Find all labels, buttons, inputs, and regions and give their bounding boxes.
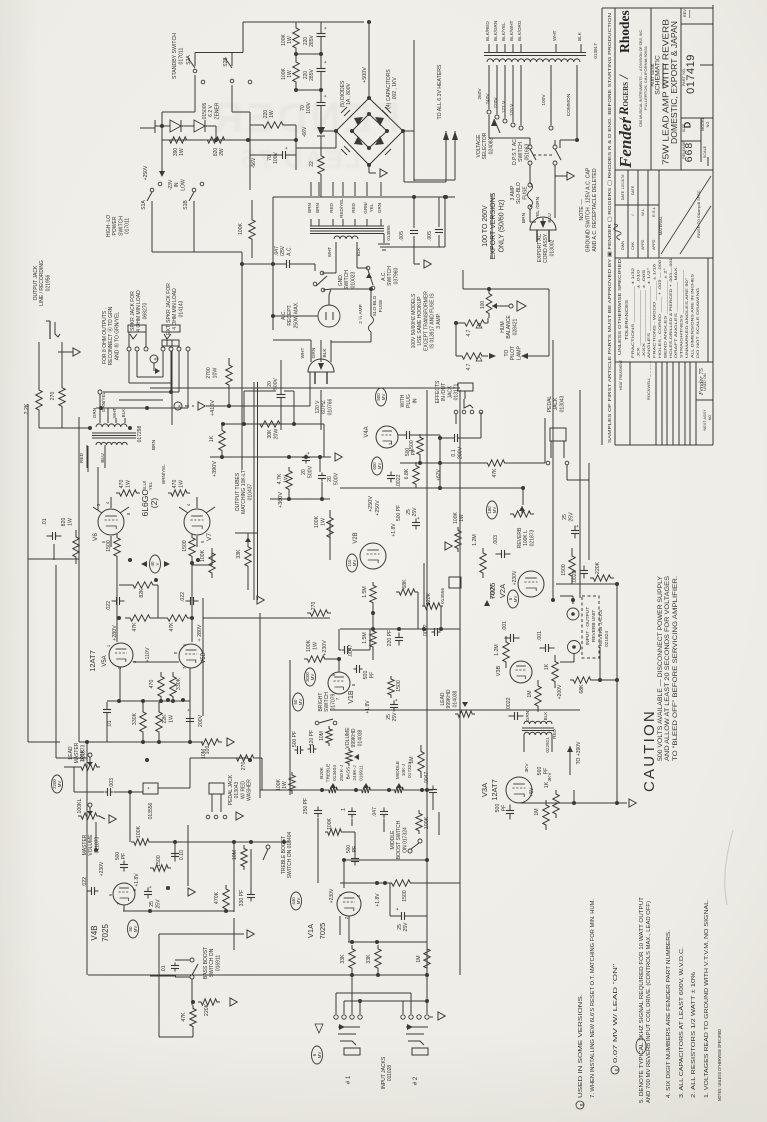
svg-text:.047: .047 [274, 246, 280, 256]
svg-text:RED: RED [351, 202, 356, 212]
svg-text:1K: 1K [209, 435, 215, 442]
svg-text:220K: 220K [595, 561, 601, 574]
svg-text:8: 8 [580, 1103, 586, 1106]
svg-text:-56V: -56V [251, 157, 257, 168]
svg-text:SWITCH: SWITCH [118, 216, 124, 236]
svg-text:—: — [685, 10, 694, 18]
svg-text:CAUTION: CAUTION [641, 709, 658, 792]
svg-text:FRACTIONS - WOOD ______ ± 1/16: FRACTIONS - WOOD ______ ± 1/16 [653, 264, 657, 358]
svg-text:BLK/RED: BLK/RED [485, 21, 490, 41]
svg-text:.003: .003 [493, 535, 499, 545]
svg-text:1W: 1W [179, 148, 185, 156]
svg-text:MV: MV [57, 781, 62, 788]
svg-text:DATE: DATE [631, 185, 635, 195]
svg-text:RED: RED [329, 202, 334, 212]
svg-text:+: + [148, 885, 154, 888]
svg-text:EXT. SPKR JACK FOR: EXT. SPKR JACK FOR [166, 283, 172, 335]
svg-text:021956: 021956 [45, 274, 51, 291]
svg-text:S1A: S1A [141, 200, 147, 210]
svg-text:+200V: +200V [557, 684, 563, 699]
svg-text:017419: 017419 [685, 54, 697, 94]
svg-text:270: 270 [50, 392, 56, 401]
svg-text:33K: 33K [366, 954, 372, 964]
svg-text:MATCHING 10K-LT: MATCHING 10K-LT [241, 470, 247, 514]
svg-text:MIDDLE: MIDDLE [390, 830, 396, 850]
svg-text:PILOT: PILOT [510, 346, 516, 360]
svg-text:3KV: 3KV [547, 772, 553, 782]
svg-text:LINE / RECORDING: LINE / RECORDING [39, 260, 45, 306]
svg-text:68K: 68K [579, 684, 585, 694]
svg-text:SWITCH ON: SWITCH ON [209, 948, 215, 977]
svg-text:NO.: NO. [706, 121, 710, 128]
svg-text:WHT: WHT [552, 30, 557, 41]
svg-text:120 V: 120 V [315, 400, 321, 414]
svg-text:668: 668 [683, 142, 695, 163]
svg-text:BRN/YEL: BRN/YEL [161, 464, 166, 484]
svg-text:015005: 015005 [202, 102, 208, 119]
svg-text:+: + [306, 451, 312, 454]
svg-text:BLK: BLK [121, 408, 126, 418]
svg-text:013917: 013917 [593, 43, 598, 59]
svg-text:100K: 100K [281, 68, 287, 80]
svg-text:OUTPUT TUBES: OUTPUT TUBES [235, 472, 241, 511]
svg-text:285V: 285V [309, 35, 315, 47]
svg-text:+: + [323, 26, 329, 29]
svg-text:BLU/: BLU/ [142, 480, 147, 491]
svg-text:6: 6 [615, 1068, 621, 1071]
svg-text:999KHD: 999KHD [351, 728, 357, 747]
svg-text:3. ALL CAPACITORS AT LEAST: 3. ALL CAPACITORS AT LEAST 600V, W.V.D.C… [679, 947, 685, 1098]
svg-text:RECONNECT Ⓐ TO GRN: RECONNECT Ⓐ TO GRN [107, 306, 114, 365]
svg-text:BRN: BRN [315, 203, 320, 213]
svg-text:D: D [683, 121, 693, 128]
svg-text:RED: RED [79, 452, 85, 463]
svg-text:PF: PF [369, 672, 375, 679]
svg-text:017298: 017298 [137, 425, 143, 442]
svg-text:22: 22 [309, 161, 315, 167]
svg-text:NEXT ASSY: NEXT ASSY [703, 409, 707, 431]
svg-text:.0047: .0047 [348, 644, 354, 657]
svg-text:CHK: CHK [631, 242, 635, 250]
svg-text:820: 820 [213, 148, 219, 157]
svg-text:1.2M: 1.2M [472, 534, 478, 546]
svg-text:BRN: BRN [151, 439, 157, 450]
svg-text:013556: 013556 [148, 802, 154, 819]
svg-text:IN: IN [174, 182, 180, 187]
svg-text:051663: 051663 [524, 143, 530, 160]
svg-text:+: + [284, 146, 290, 149]
svg-text:12AT7: 12AT7 [88, 650, 97, 672]
svg-text:AND Ⓑ TO GRN/YEL: AND Ⓑ TO GRN/YEL [113, 312, 120, 361]
svg-text:S2A: S2A [186, 55, 192, 65]
svg-text:VOLUME: VOLUME [88, 834, 94, 856]
svg-text:100K: 100K [238, 223, 244, 235]
svg-text:BLK/WHT: BLK/WHT [509, 20, 514, 41]
svg-text:25V: 25V [412, 507, 418, 517]
svg-text:25: 25 [386, 714, 392, 720]
svg-text:3 AMP: 3 AMP [510, 185, 516, 200]
svg-text:LOW: LOW [180, 179, 186, 191]
svg-text:1500: 1500 [561, 564, 567, 576]
svg-text:USED IN SOME VERSIONS.: USED IN SOME VERSIONS. [578, 994, 584, 1098]
svg-text:.022: .022 [106, 601, 112, 611]
svg-text:10M: 10M [319, 731, 325, 741]
svg-text:BOOST SWITCH: BOOST SWITCH [396, 820, 402, 859]
svg-text:.XX _______________ ± .010: .XX _______________ ± .010 [636, 270, 640, 358]
svg-text:V6: V6 [92, 533, 99, 541]
svg-text:.022: .022 [180, 592, 186, 602]
svg-text:GRN/: GRN/ [363, 202, 368, 214]
svg-text:MV: MV [381, 394, 386, 401]
svg-text:INPUT - OUTPUT: INPUT - OUTPUT [585, 607, 591, 645]
svg-text:470K: 470K [214, 891, 220, 904]
svg-text:010023: 010023 [350, 271, 356, 288]
svg-text:.005: .005 [427, 231, 433, 241]
svg-text:+250V: +250V [368, 496, 374, 512]
svg-text:.001: .001 [502, 621, 508, 631]
svg-text:100K: 100K [327, 818, 333, 830]
svg-text:25: 25 [149, 901, 155, 907]
svg-text:+230V: +230V [322, 640, 328, 656]
svg-text:MV: MV [298, 699, 303, 706]
svg-text:BRIGHT: BRIGHT [318, 693, 324, 712]
svg-text:82K: 82K [139, 588, 145, 598]
svg-text:DATE: DATE [621, 190, 625, 200]
svg-text:270: 270 [241, 762, 247, 771]
svg-text:100K: 100K [306, 639, 312, 652]
svg-text:PEDAL: PEDAL [547, 396, 553, 413]
svg-text:7. WHEN INSTALLING NEW 6L6'S: 7. WHEN INSTALLING NEW 6L6'S RESET O.T. … [590, 899, 596, 1098]
svg-text:BASS: BASS [345, 767, 351, 780]
svg-text:+230V: +230V [329, 888, 335, 903]
svg-text:SLO-BLO: SLO-BLO [516, 182, 522, 204]
svg-text:+: + [323, 60, 329, 63]
svg-text:V1B: V1B [348, 690, 355, 704]
svg-text:+: + [323, 94, 329, 97]
svg-text:GRN: GRN [525, 711, 530, 721]
svg-text:SWITCH: SWITCH [387, 266, 393, 286]
svg-text:010766: 010766 [327, 398, 333, 415]
svg-text:VOLTAGE: VOLTAGE [476, 134, 482, 158]
svg-text:013895: 013895 [386, 225, 391, 241]
svg-text:0.1: 0.1 [451, 449, 457, 456]
svg-text:68K: 68K [402, 579, 408, 589]
svg-text:MV: MV [133, 926, 138, 933]
svg-text:25V: 25V [403, 922, 409, 932]
svg-text:BLK: BLK [543, 711, 548, 721]
svg-text:1M: 1M [409, 756, 415, 763]
svg-text:017011: 017011 [178, 47, 184, 64]
svg-text:1W: 1W [178, 480, 184, 488]
svg-text:1K: 1K [544, 663, 550, 670]
svg-text:470: 470 [119, 480, 125, 489]
svg-text:OUTPUT JACK: OUTPUT JACK [33, 265, 39, 300]
svg-text:100K: 100K [281, 34, 287, 46]
svg-text:250 K-J: 250 K-J [339, 764, 345, 781]
svg-text:APPD: APPD [652, 239, 656, 250]
svg-text:RED: RED [552, 728, 557, 738]
svg-text:TOLERANCES: TOLERANCES [624, 300, 629, 340]
svg-text:SCALE: SCALE [703, 145, 707, 158]
svg-text:1W: 1W [282, 781, 288, 789]
svg-text:10/13/76: 10/13/76 [621, 175, 625, 190]
svg-text:V7: V7 [206, 533, 213, 541]
svg-text:33K: 33K [236, 549, 242, 559]
svg-text:FUSE: FUSE [522, 186, 528, 200]
svg-text:+500V: +500V [362, 67, 368, 83]
svg-text:250 PF: 250 PF [303, 798, 309, 814]
svg-text:W/ RED: W/ RED [240, 781, 246, 799]
svg-text:60 HZ: 60 HZ [321, 400, 327, 414]
svg-text:V3B: V3B [496, 665, 502, 676]
svg-text:037960: 037960 [393, 267, 399, 284]
svg-text:TO “BLEED OFF” BEFORE SERVIC: TO “BLEED OFF” BEFORE SERVICING AMPLIFIE… [673, 576, 679, 761]
svg-text:RED/YEL: RED/YEL [339, 198, 344, 218]
svg-text:WASHER: WASHER [247, 779, 253, 801]
svg-text:YEL: YEL [148, 481, 153, 490]
svg-text:MV: MV [513, 596, 518, 603]
svg-text:FRACTIONS ___________ ± 1/32: FRACTIONS ___________ ± 1/32 [631, 268, 635, 358]
svg-text:500V: 500V [307, 465, 313, 478]
svg-text:820: 820 [61, 518, 67, 527]
svg-text:100V: 100V [541, 94, 547, 106]
svg-text:.002 , 1KV: .002 , 1KV [392, 77, 398, 101]
svg-text:BLK: BLK [577, 31, 582, 41]
svg-text:NO.: NO. [708, 414, 712, 420]
svg-text:+: + [146, 786, 151, 789]
svg-text:4.7: 4.7 [466, 329, 472, 336]
svg-text:068270: 068270 [142, 302, 148, 319]
svg-text:.1: .1 [341, 808, 347, 812]
svg-text:20W: 20W [273, 429, 279, 440]
svg-text:.01: .01 [107, 720, 113, 727]
svg-text:470: 470 [172, 480, 178, 489]
svg-text:ONLY (50/60 Hz): ONLY (50/60 Hz) [498, 199, 505, 252]
svg-text:1.5M: 1.5M [362, 586, 368, 598]
svg-text:BALANCE: BALANCE [506, 315, 512, 339]
svg-text:V5B: V5B [201, 652, 207, 663]
svg-text:A.C.: A.C. [281, 310, 287, 320]
svg-text:+230V: +230V [99, 861, 105, 876]
svg-text:V2A: V2A [498, 584, 507, 598]
svg-text:70: 70 [267, 155, 273, 161]
svg-text:+250V: +250V [375, 500, 381, 516]
svg-text:WHT: WHT [300, 347, 306, 358]
svg-text:.001: .001 [537, 631, 543, 641]
svg-text:100V: 100V [306, 102, 312, 114]
svg-text:APPD: APPD [641, 239, 645, 250]
svg-text:100K L: 100K L [523, 530, 529, 546]
svg-text:(2): (2) [149, 498, 159, 509]
svg-text:25V: 25V [568, 512, 574, 522]
svg-text:5. DENOTE TYPICAL 1KHZ: 5. DENOTE TYPICAL 1KHZ SIGNAL REQUIRED F… [639, 896, 645, 1103]
svg-text:MODEL: MODEL [701, 117, 705, 131]
svg-text:12AT7: 12AT7 [490, 779, 499, 801]
svg-text:270: 270 [311, 602, 317, 611]
svg-text:47K: 47K [181, 1012, 187, 1022]
svg-text:POWER: POWER [112, 216, 118, 235]
svg-text:47K: 47K [492, 468, 498, 478]
svg-text:SWITCH: SWITCH [344, 270, 350, 290]
svg-text:330K: 330K [176, 677, 182, 690]
svg-text:Rhodes: Rhodes [617, 10, 632, 53]
svg-text:PEDAL JACK: PEDAL JACK [228, 774, 234, 805]
svg-text:MV: MV [352, 560, 357, 567]
svg-text:2 ½ AMP: 2 ½ AMP [357, 304, 364, 323]
svg-text:016911: 016911 [215, 955, 221, 972]
svg-text:500 PF: 500 PF [292, 731, 298, 747]
svg-text:+1.8V: +1.8V [375, 893, 381, 907]
svg-text:011028: 011028 [387, 1065, 393, 1082]
svg-text:25: 25 [562, 514, 568, 520]
svg-text:V: V [155, 562, 160, 565]
svg-text:013404: 013404 [332, 765, 338, 781]
svg-text:024083: 024083 [488, 137, 494, 154]
svg-text:100K: 100K [453, 512, 459, 524]
svg-text:B: B [153, 357, 158, 360]
svg-text:INPUT JACKS: INPUT JACKS [381, 1056, 387, 1089]
svg-text:+62V: +62V [436, 468, 442, 480]
svg-text:GRN: GRN [311, 347, 317, 358]
svg-text:10W: 10W [212, 368, 218, 379]
svg-text:013043: 013043 [234, 781, 240, 798]
svg-text:120 PF: 120 PF [309, 730, 315, 746]
svg-text:028421: 028421 [512, 318, 518, 335]
svg-text:AND A.C. RECEPTACLE DELETED: AND A.C. RECEPTACLE DELETED [592, 168, 598, 251]
svg-text:33K: 33K [340, 954, 346, 964]
svg-text:WITH: WITH [400, 394, 406, 407]
svg-text:1W: 1W [125, 480, 131, 488]
svg-text:USE SAME HOOKUP: USE SAME HOOKUP [417, 296, 423, 346]
svg-text:1W: 1W [269, 110, 275, 118]
svg-text:390: 390 [173, 148, 179, 157]
svg-text:# 1: # 1 [346, 1075, 352, 1084]
svg-text:+ 280V: + 280V [197, 624, 203, 641]
svg-text:REVERB JACKS: REVERB JACKS [598, 610, 604, 647]
svg-text:4 OHM MIN LOAD: 4 OHM MIN LOAD [172, 288, 178, 330]
svg-text:1500: 1500 [409, 440, 415, 452]
svg-text:DWN: DWN [621, 241, 625, 250]
svg-text:MV: MV [492, 507, 497, 514]
svg-text:6.2 V: 6.2 V [208, 105, 214, 117]
svg-text:220V: 220V [493, 97, 499, 109]
svg-text:+230V: +230V [512, 570, 518, 585]
svg-text:25: 25 [397, 924, 403, 930]
svg-text:100K: 100K [136, 825, 142, 838]
svg-text:EFFECTS: EFFECTS [435, 380, 441, 403]
svg-text:0.10: 0.10 [179, 850, 185, 860]
svg-text:.XXX ______________ ± .005: .XXX ______________ ± .005 [642, 270, 646, 358]
svg-text:500 PF: 500 PF [396, 505, 402, 521]
svg-text:IN: IN [412, 398, 418, 403]
svg-text:017079: 017079 [330, 693, 336, 710]
svg-text:A.C.: A.C. [286, 246, 292, 256]
svg-text:6.8K: 6.8K [404, 468, 410, 479]
svg-text:013556: 013556 [440, 588, 446, 604]
svg-text:285V: 285V [309, 69, 315, 81]
svg-text:+: + [394, 698, 400, 701]
svg-text:HIGH- LO: HIGH- LO [106, 215, 112, 237]
svg-text:100KL: 100KL [77, 798, 83, 813]
svg-text:1500: 1500 [402, 890, 408, 902]
svg-text:014038: 014038 [452, 690, 458, 707]
svg-text:SLO-BLO: SLO-BLO [372, 295, 378, 316]
svg-text:2700: 2700 [206, 367, 212, 379]
svg-text:47K: 47K [169, 622, 175, 632]
svg-text:+: + [416, 516, 422, 519]
svg-text:1W: 1W [320, 518, 326, 526]
svg-text:TREBLE: TREBLE [326, 764, 332, 783]
svg-text:A.C.: A.C. [381, 271, 387, 281]
svg-text:GRN: GRN [92, 408, 97, 418]
svg-text:249K-J: 249K-J [352, 765, 358, 781]
svg-text:500: 500 [346, 845, 352, 854]
svg-text:V5A: V5A [102, 655, 108, 666]
svg-text:4.7: 4.7 [466, 363, 472, 370]
svg-text:500V: 500V [333, 472, 339, 485]
svg-text:FULLERTON, CALIFORNIA 92631: FULLERTON, CALIFORNIA 92631 [643, 46, 648, 110]
svg-text:.047: .047 [372, 807, 378, 817]
svg-text:BLK: BLK [322, 348, 328, 358]
svg-text:100K: 100K [200, 549, 206, 562]
svg-text:GND.: GND. [338, 274, 344, 287]
svg-text:PF: PF [121, 853, 127, 859]
svg-text:1W: 1W [168, 715, 174, 723]
svg-text:PLUG: PLUG [406, 394, 412, 408]
svg-text:4. SIX DIGIT NUMBERS ARE: 4. SIX DIGIT NUMBERS ARE FENDER PART NUM… [666, 930, 672, 1098]
svg-text:.0022: .0022 [506, 697, 512, 710]
svg-text:220: 220 [303, 37, 309, 46]
svg-text:+250V: +250V [143, 165, 149, 180]
svg-text:ON 017324: ON 017324 [402, 827, 408, 853]
svg-text:TO ALL 6.3V HEATERS: TO ALL 6.3V HEATERS [437, 64, 443, 120]
svg-text:220K: 220K [204, 1003, 210, 1016]
svg-text:260V: 260V [477, 88, 483, 100]
svg-text:MV: MV [310, 674, 315, 681]
svg-text:200V: 200V [198, 714, 204, 727]
svg-text:SAMPLES OF FIRST ARTICLE PARTS: SAMPLES OF FIRST ARTICLE PARTS MUST BE A… [607, 12, 613, 443]
svg-text:EXPORT VERSIONS: EXPORT VERSIONS [490, 192, 497, 259]
svg-text:WHT: WHT [327, 247, 332, 258]
svg-text:JACK: JACK [447, 385, 453, 398]
svg-text:GROUND SWITCH , 125V A.C. CAP: GROUND SWITCH , 125V A.C. CAP [585, 167, 591, 252]
svg-text:30K: 30K [267, 429, 273, 439]
svg-text:500: 500 [495, 804, 501, 813]
svg-text:YEL /GRN: YEL /GRN [535, 196, 541, 219]
svg-text:V1A: V1A [306, 924, 315, 938]
svg-text:+110V: +110V [145, 647, 151, 663]
svg-text:2.2K: 2.2K [24, 403, 30, 414]
svg-text:1500: 1500 [396, 680, 402, 692]
svg-text:1. VOLTAGES READ TO GROUND: 1. VOLTAGES READ TO GROUND WITH V.T.V.M,… [704, 899, 710, 1098]
svg-text:100K: 100K [314, 515, 320, 528]
svg-text:100K: 100K [276, 779, 282, 791]
svg-text:10M: 10M [232, 850, 238, 860]
svg-text:100 TO 260V: 100 TO 260V [482, 205, 489, 247]
svg-text:1M: 1M [416, 955, 422, 962]
svg-text:USED ON: USED ON [703, 373, 707, 391]
svg-text:+: + [395, 907, 401, 910]
svg-text:25V: 25V [392, 712, 398, 722]
svg-text:STRAIGHTNESS ______________: STRAIGHTNESS ______________ [680, 269, 684, 358]
svg-text:/25V: /25V [280, 245, 286, 256]
svg-text:.01: .01 [161, 965, 167, 972]
svg-text:500 VOLTS AVAILABLE — DISCON: 500 VOLTS AVAILABLE — DISCONNECT POWER S… [658, 576, 664, 761]
svg-text:CORD ASSY.: CORD ASSY. [543, 233, 549, 263]
svg-text:S2B: S2B [223, 57, 229, 67]
svg-text:017011: 017011 [125, 218, 131, 235]
svg-text:1A , 800V: 1A , 800V [346, 82, 352, 104]
